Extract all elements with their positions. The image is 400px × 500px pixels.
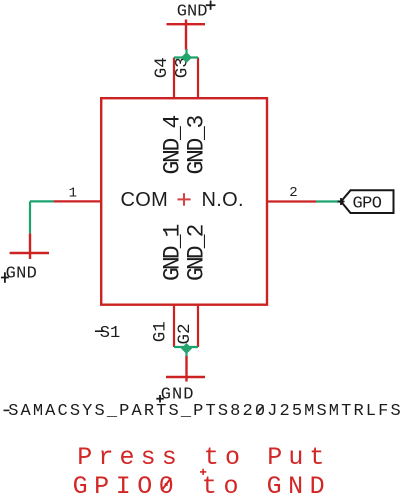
svg-text:2: 2 <box>289 185 297 201</box>
power symbol GND left <box>10 233 49 259</box>
svg-text:1: 1 <box>69 186 77 202</box>
svg-text:G1: G1 <box>150 321 170 342</box>
switch S1 body <box>101 98 267 305</box>
annotation anchor cross <box>200 469 206 475</box>
svg-text:COM: COM <box>121 189 169 211</box>
svg-text:GPIO0 to GND: GPIO0 to GND <box>73 472 332 500</box>
reference S1 <box>95 324 120 343</box>
wire right to label <box>316 200 341 202</box>
pin G3 <box>197 58 199 99</box>
svg-text:GPO: GPO <box>353 195 382 214</box>
pin G4 <box>173 58 175 99</box>
svg-text:GND: GND <box>6 264 38 283</box>
svg-text:GND: GND <box>177 2 208 21</box>
wire top stub <box>185 49 187 58</box>
wire bottom horizontal <box>174 346 198 348</box>
slash of zero in PTS820 <box>257 406 264 415</box>
svg-text:GND_2: GND_2 <box>184 224 210 281</box>
pin G2 <box>197 305 199 347</box>
net label GND+ top <box>177 1 216 22</box>
net label GND bottom <box>156 386 194 405</box>
svg-text:G4: G4 <box>152 57 172 78</box>
svg-text:G3: G3 <box>173 57 193 78</box>
svg-text:SAMACSYS_PARTS_PTS820J25MSMTRL: SAMACSYS_PARTS_PTS820J25MSMTRLFS <box>8 402 400 421</box>
junction bottom <box>181 343 192 354</box>
global label GPO shape <box>338 190 394 213</box>
wire left vertical <box>29 201 31 233</box>
svg-text:N.O.: N.O. <box>202 189 244 211</box>
pin G1 <box>173 305 175 347</box>
svg-text:Press to Put: Press to Put <box>77 443 330 472</box>
svg-text:GND_1: GND_1 <box>160 224 186 281</box>
symbol center cross <box>178 193 191 206</box>
pin 2 <box>267 200 316 202</box>
svg-text:GND_3: GND_3 <box>184 115 210 174</box>
svg-text:S1: S1 <box>100 324 120 343</box>
slash of zero in GPIO0 <box>162 478 172 491</box>
wire bottom stub <box>185 347 187 357</box>
power symbol GND bottom <box>166 356 205 382</box>
svg-text:G2: G2 <box>175 323 195 344</box>
junction top <box>181 52 192 63</box>
pin 1 <box>54 200 101 202</box>
value SAMACSYS_PARTS_PTS820J25MSMTRLFS <box>4 402 400 421</box>
power symbol GND+ top <box>167 20 206 50</box>
wire top horizontal <box>174 56 198 58</box>
svg-text:GND_4: GND_4 <box>160 115 186 174</box>
wire left horizontal <box>30 200 54 202</box>
net label GND left <box>1 264 37 283</box>
